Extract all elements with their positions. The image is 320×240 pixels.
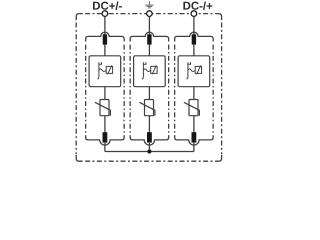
SCI switch tick [188, 62, 191, 64]
terminal earth [147, 11, 153, 17]
wire contact to SCI box [148, 45, 150, 56]
enclosure dash-dot border [76, 14, 221, 162]
wire terminal to plug contact [193, 16, 195, 35]
terminal DC-/+ [191, 11, 197, 17]
plug contact (top, module 2) [147, 34, 151, 44]
SCI monitored varistor box [106, 66, 112, 73]
varistor MOV3 diagonal with hook [184, 102, 200, 115]
SCI varistor diagonal [197, 65, 201, 74]
thermal disconnector SCI box U2 [134, 56, 166, 87]
wire SCI box to varistor [104, 87, 106, 100]
wire varistor to bottom contact [148, 116, 150, 133]
SCI switch blade [98, 62, 99, 79]
svg-text:DC+/-: DC+/- [92, 1, 122, 13]
module 3 outline top bar with hop over contact [175, 32, 214, 41]
module 1 left boundary [85, 45, 87, 135]
module 2 right boundary [168, 45, 170, 135]
module 2 outline top bar with hop over contact [130, 32, 169, 41]
thermal disconnector SCI box U3 [178, 56, 210, 87]
wire SCI box to varistor [193, 87, 195, 100]
plug contact (bottom, module 3) [192, 132, 197, 142]
wire varistor to bottom contact [193, 116, 195, 133]
varistor MOV3 body [189, 100, 198, 116]
SCI thermal coupling squiggle [143, 69, 150, 72]
SCI switch tick [143, 62, 146, 64]
common bus wire [105, 151, 194, 153]
wire terminal to plug contact [148, 16, 150, 35]
varistor MOV2 diagonal with hook [139, 102, 155, 115]
varistor MOV1 diagonal with hook [95, 102, 111, 115]
module 2 outline bottom bar with hop under contact [130, 135, 169, 145]
module 3 outline bottom bar with hop under contact [175, 135, 214, 145]
SCI monitored varistor box [195, 66, 201, 73]
plug contact (top, module 1) [103, 34, 107, 44]
varistor MOV1 body [100, 100, 109, 116]
wire contact to SCI box [193, 45, 195, 56]
wire contact to SCI box [104, 45, 106, 56]
SCI switch blade [142, 62, 143, 79]
SCI thermal coupling squiggle [99, 69, 106, 72]
varistor MOV2 body [145, 100, 154, 116]
wire terminal to plug contact [104, 16, 106, 35]
module 1 outline top bar with hop over contact [86, 32, 125, 41]
module 1 outline bottom bar with hop under contact [86, 135, 125, 145]
SCI switch tick [99, 62, 102, 64]
module 2 left boundary [129, 45, 131, 135]
SCI switch blade [187, 62, 188, 79]
earth symbol (top middle) [145, 1, 153, 8]
plug contact (bottom, module 1) [103, 132, 108, 142]
module 1 right boundary [123, 45, 125, 135]
wire module 1 to bus [104, 143, 106, 152]
SCI monitored varistor box [151, 66, 157, 73]
wire SCI box to varistor [148, 87, 150, 100]
terminal DC+/- [102, 11, 108, 17]
SCI thermal coupling squiggle [188, 69, 195, 72]
SCI varistor diagonal [108, 65, 112, 74]
junction node [147, 149, 151, 153]
wire varistor to bottom contact [104, 116, 106, 133]
svg-text:DC-/+: DC-/+ [183, 1, 213, 13]
plug contact (top, module 3) [192, 34, 196, 44]
wire module 3 to bus [193, 143, 195, 152]
module 3 right boundary [212, 45, 214, 135]
thermal disconnector SCI box U1 [89, 56, 121, 87]
SCI varistor diagonal [152, 65, 156, 74]
module 3 left boundary [174, 45, 176, 135]
plug contact (bottom, module 2) [147, 132, 152, 142]
wire module 2 to bus [148, 143, 150, 152]
